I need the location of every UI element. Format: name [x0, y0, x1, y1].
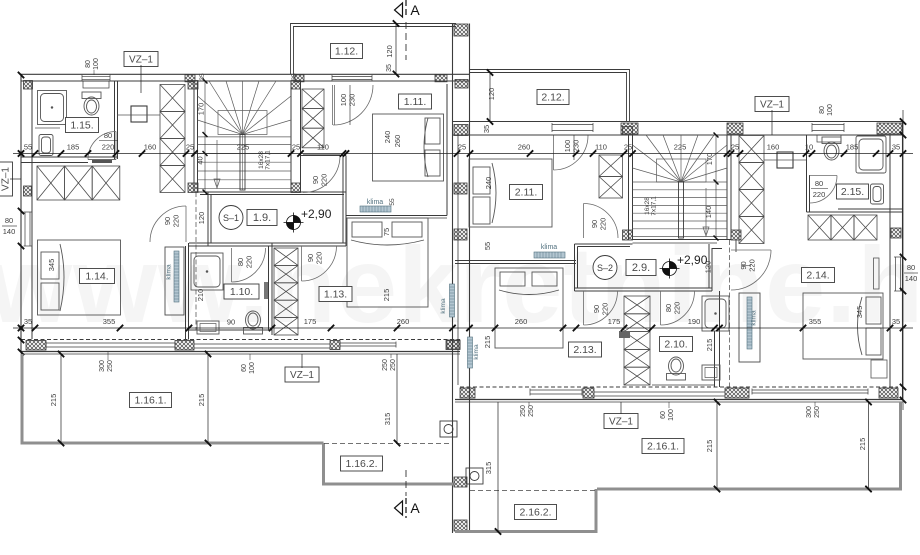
svg-text:100: 100	[93, 58, 100, 70]
vdim 215 terrace2 a	[716, 402, 718, 489]
svg-text:250: 250	[107, 360, 114, 372]
wardrobe 2.11 box 1	[599, 155, 623, 177]
terrace 1.16 dashed edge	[324, 443, 452, 445]
stair2 side dim line	[715, 135, 717, 238]
hatch top2 c	[877, 123, 902, 134]
wall under bed 1.13	[346, 215, 447, 217]
drain symbol 1	[440, 421, 457, 437]
svg-text:100: 100	[249, 362, 256, 374]
stair 2 bottom wall	[633, 239, 732, 241]
svg-text:160: 160	[767, 143, 780, 152]
svg-text:220: 220	[320, 174, 329, 187]
wardrobe 1.14 box 2	[65, 166, 93, 200]
wardrobe 1.11 box 2	[302, 109, 324, 129]
wardrobe column corridor2 box 4	[739, 217, 764, 244]
svg-text:klima: klima	[541, 244, 557, 251]
svg-text:2.14.: 2.14.	[806, 270, 829, 282]
svg-text:355: 355	[809, 317, 822, 326]
balcony 1.12 outline	[291, 24, 457, 75]
svg-text:+2,90: +2,90	[677, 253, 708, 267]
svg-text:215: 215	[382, 289, 391, 302]
svg-text:60: 60	[660, 411, 667, 419]
svg-text:140: 140	[704, 206, 713, 219]
door 2.14	[731, 249, 771, 251]
niche sill bath 1.15	[83, 81, 109, 88]
svg-text:300: 300	[99, 360, 106, 372]
wall below bathroom 1.15	[21, 156, 118, 158]
room label 1.13	[319, 287, 352, 302]
room label 2.16.2	[515, 505, 557, 520]
label VZ-1 top2	[755, 97, 789, 112]
hatch bottom2 b	[583, 388, 594, 398]
hatch stair1 topleft	[188, 81, 198, 90]
niche sill bath 2.15	[817, 135, 841, 142]
svg-text:2.13.: 2.13.	[573, 344, 596, 356]
svg-text:1.16.1.: 1.16.1.	[134, 395, 166, 407]
wardrobe 1.14 box 1	[37, 166, 65, 200]
wall bottom unit1	[21, 339, 460, 341]
svg-text:225: 225	[237, 143, 250, 152]
hall 1.9 box	[247, 210, 277, 226]
svg-text:1.15.: 1.15.	[70, 120, 93, 132]
stair 1 winder rect	[218, 111, 267, 135]
svg-text:220: 220	[748, 259, 757, 272]
hall 2.9 bottom wall	[575, 287, 713, 289]
svg-text:80: 80	[815, 179, 823, 188]
hatch stair1 botleft	[188, 183, 198, 193]
radiator 2.13	[619, 331, 630, 338]
bed 1.11	[373, 114, 444, 181]
stair 2 winder rect	[657, 159, 707, 182]
sink 2.10	[702, 365, 720, 380]
wall 2.14 left upper	[735, 240, 737, 252]
svg-text:160: 160	[144, 143, 157, 152]
wall landing 1.11	[301, 155, 347, 157]
svg-text:35: 35	[892, 143, 900, 152]
door 2.9 corridor top	[583, 204, 585, 239]
wall left unit1	[20, 74, 22, 352]
stair 2 spindle	[679, 182, 684, 238]
svg-text:220: 220	[599, 218, 608, 231]
svg-text:240: 240	[484, 177, 493, 190]
svg-text:7x17,1: 7x17,1	[651, 196, 658, 216]
svg-text:225: 225	[674, 143, 687, 152]
svg-text:klima: klima	[166, 264, 173, 280]
svg-text:190: 190	[688, 317, 701, 326]
svg-text:25: 25	[731, 143, 739, 152]
svg-text:260: 260	[393, 135, 402, 148]
wardrobe column corridor2 box 2	[739, 163, 764, 190]
svg-text:75: 75	[382, 228, 391, 236]
vdim left edge	[18, 72, 24, 78]
door 1.10	[231, 248, 233, 282]
svg-text:140: 140	[3, 227, 16, 236]
svg-text:100: 100	[668, 409, 675, 421]
hatch bottom2 d	[879, 388, 898, 398]
svg-text:VZ–1: VZ–1	[129, 55, 153, 66]
svg-text:210: 210	[196, 289, 205, 302]
dim chain bottom horizontal	[13, 327, 913, 329]
radiator 1.15	[92, 160, 112, 163]
svg-text:35: 35	[482, 125, 491, 133]
wardrobe corridor1 box 1	[160, 85, 185, 112]
wardrobe 2.13 box 4	[624, 349, 650, 367]
radiator 2.14 window	[874, 258, 880, 289]
svg-text:230: 230	[572, 140, 581, 153]
hatch central f	[454, 520, 467, 531]
wardrobe 2.14 right box 3	[854, 215, 877, 240]
wardrobe 1.14 box 3	[92, 166, 120, 200]
svg-text:80: 80	[907, 263, 915, 272]
stair 1 fan	[198, 81, 292, 135]
svg-text:170: 170	[705, 153, 714, 166]
svg-text:315: 315	[484, 462, 493, 475]
shaft box corridor 1	[131, 106, 147, 122]
toilet 2.15	[822, 137, 841, 160]
wardrobe 1.13 box 4	[274, 300, 298, 317]
room label 1.16.2	[341, 456, 383, 471]
wardrobe corridor1 box 3	[160, 139, 185, 166]
window bottom 1.14	[46, 342, 175, 349]
wardrobe 2.13 box 5	[624, 367, 650, 385]
hatch left wall top	[24, 81, 33, 90]
svg-text:+2,90: +2,90	[301, 207, 332, 221]
balcony 2.12 outline	[470, 70, 630, 122]
svg-text:175: 175	[608, 317, 621, 326]
svg-text:40: 40	[196, 156, 205, 164]
wardrobe 2.14 right box 2	[831, 215, 854, 240]
shower 1.10	[191, 253, 223, 290]
hatch top wall b	[294, 75, 304, 82]
svg-text:80: 80	[85, 60, 92, 68]
wardrobe column corridor2 box 1	[739, 136, 764, 163]
wall bath 2.15 left	[806, 135, 808, 212]
svg-text:120: 120	[197, 212, 206, 225]
room label 2.10	[660, 337, 693, 352]
wardrobe 2.13 box 1	[624, 296, 650, 314]
hatch top wall a	[185, 75, 195, 82]
drain symbol 2	[466, 468, 483, 484]
wardrobe column corridor2 box 3	[739, 190, 764, 217]
svg-text:215: 215	[483, 336, 492, 349]
window bottom 1.13	[340, 342, 396, 348]
hatch central d	[447, 340, 460, 349]
svg-text:2.10.: 2.10.	[664, 339, 687, 351]
room label 1.15	[66, 118, 99, 133]
svg-text:220: 220	[601, 303, 610, 316]
svg-text:220: 220	[172, 215, 181, 228]
klima 1.13 right	[450, 284, 455, 317]
stair 2 treads	[633, 182, 728, 237]
wardrobe 1.11 box 1	[302, 89, 324, 109]
svg-text:S–1: S–1	[223, 213, 239, 223]
hatch right wall mid	[891, 228, 901, 238]
hatch central a	[454, 125, 468, 136]
dim chain main horizontal	[13, 153, 913, 155]
svg-text:55: 55	[389, 198, 396, 206]
svg-text:220: 220	[673, 302, 682, 315]
door 1.15	[88, 132, 116, 160]
wardrobe 1.13 box 3	[274, 283, 298, 300]
radiator 1.10	[264, 282, 268, 299]
door bottom 2.13	[530, 389, 582, 396]
wall stair1 left	[193, 81, 195, 192]
bed 1.14	[38, 240, 121, 315]
svg-text:35: 35	[24, 317, 32, 326]
svg-text:2.16.1.: 2.16.1.	[647, 441, 679, 453]
dash line 2.10	[729, 240, 731, 387]
wall top unit1	[21, 73, 471, 75]
klima 2.13 left	[468, 337, 473, 368]
svg-text:S–2: S–2	[597, 263, 613, 273]
svg-text:www.nekretnine.hr: www.nekretnine.hr	[0, 224, 920, 345]
shower 2.10	[702, 296, 729, 331]
room label 1.16.1	[130, 393, 172, 408]
sink 2.15	[871, 184, 884, 204]
svg-text:220: 220	[315, 252, 324, 265]
svg-text:25: 25	[624, 143, 632, 152]
label VZ-1 top1	[124, 52, 158, 67]
hatch bottom1 a	[26, 341, 46, 351]
wall top unit2	[453, 121, 904, 123]
wall 1.10 bottom	[189, 329, 273, 331]
svg-text:2.11.: 2.11.	[515, 187, 538, 199]
bed 2.13	[495, 268, 563, 348]
terrace 1.16.1 outline	[22, 354, 324, 443]
section A top	[395, 3, 403, 17]
stair1 side dim line	[204, 81, 206, 192]
hatch central top	[454, 24, 468, 36]
terrace 1.16.2 outline	[324, 443, 454, 484]
svg-text:170: 170	[197, 103, 206, 116]
svg-text:315: 315	[383, 413, 392, 426]
terrace 2.16.1 outline	[597, 402, 901, 489]
level marker 1	[284, 213, 304, 233]
washbasin counter 1.15	[35, 127, 60, 129]
dash line hall1	[195, 192, 197, 330]
svg-text:80: 80	[819, 106, 826, 114]
svg-text:VZ–1: VZ–1	[760, 100, 784, 111]
svg-text:VZ–1: VZ–1	[1, 167, 12, 191]
hall 2.9 box	[626, 260, 656, 276]
wardrobe 2.11 box 2	[599, 177, 623, 199]
svg-text:35: 35	[892, 317, 900, 326]
svg-text:10: 10	[805, 143, 813, 152]
svg-text:345: 345	[855, 306, 864, 319]
svg-text:25: 25	[186, 143, 194, 152]
window 80/100 bath 2.15	[812, 123, 844, 132]
window top wall bathroom	[82, 75, 110, 81]
svg-text:220: 220	[245, 256, 254, 269]
svg-text:1.16.2.: 1.16.2.	[345, 458, 377, 470]
wall 2.10 bottom piece	[652, 384, 715, 386]
vdim 215 terrace2 b	[868, 402, 870, 489]
svg-text:2.12.: 2.12.	[541, 92, 564, 104]
svg-text:185: 185	[67, 143, 80, 152]
svg-text:215: 215	[858, 438, 867, 451]
stair 2 arrow	[705, 188, 707, 234]
wall bath 2.15 bottom	[838, 208, 903, 210]
svg-text:250: 250	[814, 406, 821, 418]
room label 2.12	[537, 90, 569, 105]
door 2.9 to 2.13	[583, 291, 585, 325]
wardrobe 1.11 box 3	[302, 128, 324, 148]
svg-text:55: 55	[483, 242, 492, 250]
svg-text:25: 25	[458, 143, 466, 152]
room label 1.10	[224, 284, 259, 299]
hall 2.9 right wall	[708, 244, 710, 288]
svg-text:220: 220	[813, 190, 826, 199]
svg-text:215: 215	[49, 394, 58, 407]
closet 1.14 klima	[165, 247, 184, 315]
wardrobe corridor1 box 4	[160, 166, 185, 193]
hatch bottom1 c	[330, 341, 340, 350]
svg-text:250: 250	[520, 405, 527, 417]
svg-text:7x17,1: 7x17,1	[265, 150, 272, 170]
room label 1.11	[399, 94, 432, 109]
room label 2.15	[837, 184, 869, 199]
hatch stair2 botleft	[623, 230, 633, 240]
door balcony 1.11	[332, 85, 334, 125]
hatch top wall c	[435, 75, 447, 82]
bed 1.13	[347, 218, 428, 307]
door balcony 2.11	[553, 136, 555, 171]
window 80/140 right wall	[894, 257, 902, 291]
hatch central b	[454, 183, 467, 194]
central wall	[446, 84, 448, 216]
wall 1.10 right	[268, 246, 270, 330]
hatch stair2 topleft	[623, 127, 633, 136]
toilet 1.15	[82, 92, 101, 115]
svg-text:klima: klima	[440, 298, 447, 314]
room label 1.12	[331, 44, 363, 59]
svg-text:260: 260	[515, 317, 528, 326]
svg-text:110: 110	[595, 143, 607, 152]
bed 2.11	[469, 159, 552, 227]
room label 1.14	[80, 269, 115, 284]
vdim 215 terrace1 b	[207, 354, 209, 443]
svg-text:250: 250	[382, 359, 389, 371]
svg-text:175: 175	[304, 317, 317, 326]
hatch central e	[454, 477, 467, 487]
svg-text:260: 260	[518, 143, 531, 152]
window 80/140 left wall	[24, 212, 32, 246]
svg-text:VZ–1: VZ–1	[290, 370, 314, 381]
wardrobe 1.13 box 2	[274, 265, 298, 282]
bath 2.15	[856, 136, 886, 173]
window bottom 2.14	[752, 389, 868, 395]
hatch left wall mid	[24, 186, 32, 196]
svg-text:25: 25	[292, 143, 300, 152]
wardrobe 1.13 box 5	[274, 318, 298, 335]
svg-text:120: 120	[385, 45, 394, 58]
room label 2.11	[510, 185, 543, 200]
svg-text:260: 260	[397, 317, 410, 326]
wall bottom unit2	[460, 386, 898, 388]
svg-text:215: 215	[197, 394, 206, 407]
shaft box corridor 2	[777, 152, 793, 168]
svg-text:230: 230	[348, 94, 357, 107]
svg-text:VZ–1: VZ–1	[609, 417, 633, 428]
svg-text:2.15.: 2.15.	[841, 186, 864, 198]
toilet 1.10	[244, 311, 263, 334]
stair 2 fan	[633, 135, 728, 182]
svg-text:80: 80	[5, 216, 13, 225]
label VZ-1 bottom1	[285, 367, 319, 382]
balcony door opening 1.11	[332, 75, 372, 81]
vdim 315 terrace1	[396, 354, 398, 443]
svg-text:35: 35	[199, 73, 206, 81]
svg-text:300: 300	[806, 406, 813, 418]
vdim 315 terrace2	[497, 402, 499, 532]
washer 1.10	[197, 321, 219, 334]
svg-text:120: 120	[487, 88, 496, 101]
hatch stair2 botright	[731, 230, 741, 240]
door hall to 1.14	[185, 206, 187, 242]
hall S-1 circle	[219, 206, 243, 230]
room label 2.16.1	[642, 439, 684, 454]
stair 1 spindle	[240, 135, 245, 191]
svg-text:220: 220	[102, 143, 115, 152]
section A bottom	[395, 501, 403, 515]
svg-text:110: 110	[317, 143, 329, 152]
vdim right edge	[900, 118, 906, 124]
svg-text:klima: klima	[473, 344, 480, 360]
wall right unit2	[902, 122, 904, 401]
balcony door opening 2.11	[552, 123, 593, 132]
label VZ-1 bottom2	[604, 414, 638, 429]
terrace 2.16.2 outline	[455, 489, 596, 532]
wardrobe 2.13 box 3	[624, 332, 650, 350]
hatch central c	[454, 229, 467, 240]
svg-text:140: 140	[905, 274, 918, 283]
svg-text:60: 60	[241, 364, 248, 372]
door 2.10	[660, 291, 662, 325]
svg-text:215: 215	[705, 440, 714, 453]
svg-text:250: 250	[528, 405, 535, 417]
toilet 2.10	[667, 357, 686, 380]
wall 1.10 top	[189, 245, 232, 247]
svg-text:250: 250	[390, 359, 397, 371]
hall S-2 circle	[593, 256, 617, 280]
svg-text:90: 90	[227, 318, 235, 327]
hall 2.9 outline	[575, 244, 633, 291]
hatch stair1 botright	[291, 183, 301, 193]
label VZ-1 left rotated	[0, 162, 13, 196]
svg-text:55: 55	[24, 143, 32, 152]
svg-text:185: 185	[846, 143, 859, 152]
vdim 215 terrace1 a	[60, 354, 62, 443]
door 2.15	[810, 175, 838, 177]
svg-text:A: A	[410, 500, 420, 516]
bed 2.14	[803, 293, 883, 359]
hatch bottom1 d	[446, 341, 460, 350]
svg-text:215: 215	[705, 339, 714, 352]
wall corridor 2.14 top	[712, 248, 722, 250]
wall 2.10|2.14	[714, 331, 716, 387]
hall 1.9 bottom wall	[189, 242, 346, 244]
svg-text:35: 35	[386, 64, 393, 72]
hatch central top2	[455, 80, 468, 89]
svg-text:1.12.: 1.12.	[335, 46, 358, 58]
hall 1.9 outline	[198, 192, 346, 246]
hatch bottom2 c	[725, 388, 749, 398]
sink 1.15	[39, 135, 53, 156]
svg-text:2.9.: 2.9.	[632, 262, 650, 274]
svg-text:klima: klima	[751, 310, 758, 326]
stair 1 arrow	[216, 140, 218, 186]
nightstand 2.14	[871, 360, 887, 378]
